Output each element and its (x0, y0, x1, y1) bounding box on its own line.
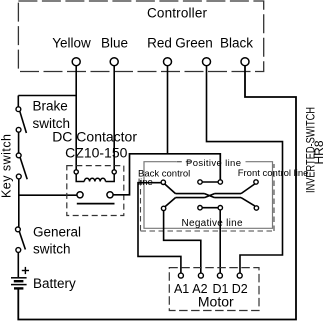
svg-text:CZ10-150: CZ10-150 (65, 145, 127, 161)
motor terminal D2 (237, 273, 242, 278)
general switch (16, 227, 26, 252)
contactor coil terminal left (74, 170, 78, 174)
wire general switch to battery (17, 252, 19, 277)
wire green terminal to motor D2 (207, 65, 283, 273)
blade to T4 (241, 184, 255, 194)
key switch (16, 153, 27, 179)
svg-text:Positive line: Positive line (186, 158, 241, 169)
wire B1 to motor A2 (164, 211, 201, 274)
lower-right run (215, 197, 242, 199)
terminal Yellow (72, 58, 80, 66)
svg-text:Red: Red (147, 36, 172, 51)
upper-right run (215, 193, 242, 195)
terminal Blue (110, 58, 118, 66)
switch terminal T1 (161, 180, 165, 184)
svg-text:Motor: Motor (198, 294, 234, 310)
inverted switch gray box (144, 162, 273, 229)
svg-text:Battery: Battery (33, 276, 76, 291)
switch terminal T2 (198, 180, 202, 184)
svg-text:D2: D2 (232, 282, 248, 296)
switch terminal T3 (218, 180, 222, 184)
motor terminal A1 (178, 273, 183, 278)
switch terminal B2 (198, 206, 202, 210)
terminal Red (164, 58, 172, 66)
upper-left run (176, 193, 205, 195)
switch terminal B1 (161, 206, 165, 210)
crossover X (205, 194, 215, 198)
wire brake switch top to yellow wire (18, 95, 76, 97)
contactor coil L1 (76, 174, 114, 182)
blade to B4 (241, 198, 255, 206)
negative pair bar B2-B3 (202, 207, 218, 209)
contactor contact bar (77, 203, 115, 205)
wire back control T1 to motor A1 (138, 183, 181, 274)
wire red terminal down (167, 65, 169, 154)
wire negative line B3 to motor D1 (219, 210, 221, 274)
lower-left run (176, 197, 205, 199)
svg-text:DC Contactor: DC Contactor (52, 128, 137, 144)
switch terminal B4 (254, 206, 258, 210)
wire between brake and key switch (18, 132, 20, 153)
motor box (dashed) (169, 268, 259, 311)
wire blue terminal to contactor coil (113, 65, 115, 170)
svg-text:switch: switch (33, 242, 71, 257)
brake switch (16, 107, 26, 133)
terminal Green (203, 58, 211, 66)
battery (11, 278, 27, 289)
switch terminal T4 (254, 180, 258, 184)
positive pair bar T2-T3 (202, 181, 218, 183)
controller box (dashed) (18, 1, 263, 72)
svg-text:Yellow: Yellow (52, 36, 91, 51)
switch crossover lines (165, 182, 255, 208)
terminal Black (241, 58, 249, 66)
svg-text:Green: Green (175, 36, 213, 51)
contactor main contact left (77, 192, 83, 198)
inverted switch dashed box (176, 161, 191, 163)
wire junction to contactor main contact (19, 194, 77, 196)
svg-text:Key switch: Key switch (0, 134, 14, 198)
motor terminal D1 (217, 273, 222, 278)
svg-text:Front control line: Front control line (238, 168, 309, 179)
DC contactor box (dashed) (67, 166, 124, 216)
wire yellow terminal to contactor coil (75, 65, 77, 170)
contactor main contact right (107, 192, 113, 198)
contactor coil terminal right (112, 170, 116, 174)
wire key switch to general switch with junction (18, 179, 20, 227)
svg-text:Brake: Brake (33, 99, 68, 114)
blade from B1 (165, 198, 175, 207)
motor terminal A2 (198, 273, 203, 278)
svg-text:General: General (33, 225, 81, 240)
wire contactor output to positive line (W1) (113, 154, 220, 195)
wire brake switch drop (17, 96, 19, 107)
svg-text:Controller: Controller (147, 6, 208, 21)
svg-text:A1: A1 (174, 282, 189, 296)
svg-text:Blue: Blue (101, 36, 128, 51)
blade from T1 (165, 184, 176, 194)
switch terminal B3 (218, 206, 222, 210)
svg-text:Negative line: Negative line (182, 218, 243, 229)
plus sign (22, 267, 29, 274)
svg-text:Black: Black (220, 36, 253, 51)
svg-text:HR8: HR8 (312, 140, 326, 164)
wire black terminal to bottom rail (18, 65, 296, 319)
